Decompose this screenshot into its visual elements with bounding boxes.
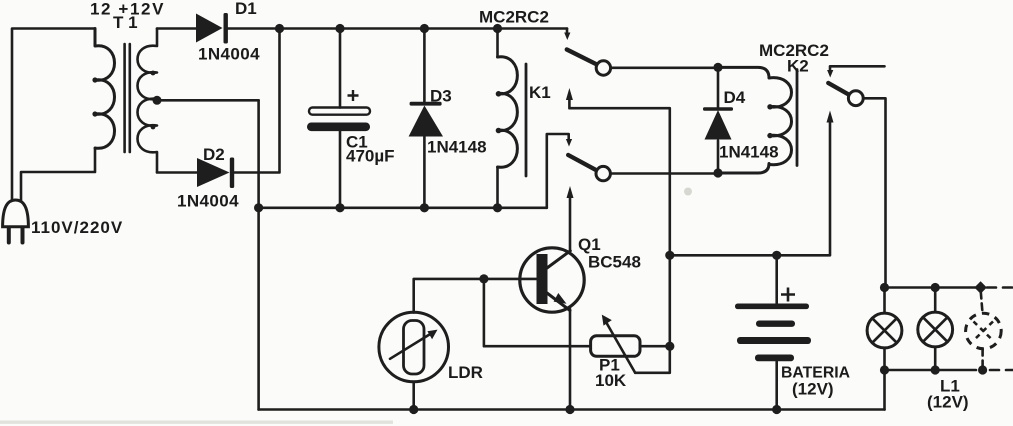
svg-text:1N4148: 1N4148 (719, 143, 779, 162)
wire lamp L1b stubs (934, 288, 937, 371)
transformer T1 primary winding (95, 29, 115, 149)
capacitor C1 bottom plate (307, 123, 370, 132)
wire P1 right terminal (640, 345, 670, 348)
svg-text:(12V): (12V) (792, 380, 834, 399)
node transformer center tap (153, 96, 162, 105)
wire 0V rail riser to K1 lower contact (547, 134, 569, 208)
node lamp2 top (931, 283, 940, 292)
node Q1 emitter on bottom rail (565, 405, 574, 414)
node lamp1 bottom (880, 365, 889, 374)
arrowhead contact pivot lower K1 (566, 139, 572, 147)
node D4/K2 bottom (713, 168, 722, 177)
wire bottom 0V rail (259, 408, 885, 411)
svg-text:110V/220V: 110V/220V (31, 218, 123, 237)
node battery positive (772, 251, 781, 260)
LDR (379, 312, 449, 382)
arrowhead pole arrow upper K1 (566, 88, 573, 100)
svg-text:Q1: Q1 (578, 235, 601, 254)
transformer T1 secondary winding (138, 29, 158, 173)
arrowhead pole arrow lower K1 (Q1 collector) (567, 186, 574, 198)
wire dashed lamp stubs (981, 292, 983, 366)
wire Q1 emitter down to rail (569, 309, 572, 410)
K2 contact point circle (848, 91, 863, 106)
relay K2 core bar (796, 70, 799, 166)
svg-text:MC2RC2: MC2RC2 (479, 8, 549, 27)
scan artifact streak bottom (0, 421, 393, 424)
wire battery negative (775, 362, 778, 410)
node Q1 base / LDR / P1 junction (479, 274, 488, 283)
diode D2 1N4004 (197, 158, 230, 187)
svg-text:1N4004: 1N4004 (198, 45, 260, 64)
wire primary bottom to plug (21, 148, 95, 201)
node D3 on 0V rail (420, 203, 429, 212)
wire K2 pole arrow down to battery rail (670, 119, 830, 255)
svg-text:T 1: T 1 (113, 13, 138, 32)
wire center-tap riser down to bottom rail (257, 100, 260, 409)
node battery on bottom rail (772, 405, 781, 414)
K2 contact blade (828, 83, 849, 95)
wire secondary top to D1 (157, 27, 196, 30)
diode D4 1N4148 (705, 110, 732, 140)
svg-text:LDR: LDR (448, 363, 483, 382)
winding joint nubs (92, 77, 97, 82)
battery plus sign (781, 288, 795, 302)
node K1 on +V rail (493, 24, 502, 33)
K1 lower contact point circle (596, 166, 610, 180)
wire D2 output up to +V rail (233, 29, 280, 173)
diode D1 1N4004 (196, 14, 223, 43)
lamp L1c dashed (optional extra lamp) (966, 313, 1002, 349)
wire lamps bottom rail dashed extension (990, 369, 1013, 372)
svg-text:10K: 10K (595, 371, 627, 390)
lamp L1a (867, 313, 902, 348)
node lamp2 bottom (931, 365, 940, 374)
wire 0V rail (259, 207, 547, 210)
wire +V top rail (227, 27, 567, 30)
wire LDR top to Q1 base (414, 279, 537, 313)
node lamp1 top (880, 283, 889, 292)
svg-text:1N4148: 1N4148 (427, 138, 487, 157)
wire D3 vertical (423, 29, 426, 208)
svg-text:1N4004: 1N4004 (177, 192, 239, 211)
relay K1 coil (498, 57, 518, 168)
wire K1 coil verticals (496, 29, 499, 208)
svg-text:(12V): (12V) (927, 393, 969, 412)
battery bar 4 (755, 355, 794, 362)
node lamp3 top diamond (974, 281, 986, 294)
K1 upper contact blade (567, 50, 598, 65)
node D4/K2 top (713, 63, 722, 72)
arrowhead pole arrow K2 (827, 111, 834, 123)
wire K1 upper contact feed from +V rail (566, 29, 569, 34)
node D2 join on +V rail (275, 24, 284, 33)
C1 plus sign (348, 90, 359, 101)
K1 upper contact point circle (596, 61, 610, 75)
wire base node down to P1 left (484, 279, 591, 346)
arrowhead contact pivot upper K1 (564, 33, 570, 41)
K1 lower contact blade (568, 155, 597, 171)
svg-text:D3: D3 (430, 87, 452, 106)
potentiometer P1 (591, 315, 640, 373)
wire lower contact output to D4/K2 bottom (610, 172, 718, 175)
node battery rail left (665, 251, 674, 260)
svg-text:BC548: BC548 (588, 253, 641, 272)
lamp L1b (918, 312, 953, 347)
wire lamps top rail (885, 286, 976, 289)
wire LDR bottom to rail (412, 382, 415, 410)
svg-text:D2: D2 (203, 145, 225, 164)
wire lamps top rail dashed extension (987, 286, 1013, 289)
svg-text:K1: K1 (529, 83, 551, 102)
wire K2 contact output down to lamps (863, 98, 885, 287)
wire lamps bottom rail (885, 369, 977, 372)
node C1 on +V rail (335, 24, 344, 33)
arrowhead contact pivot K2 (827, 70, 833, 78)
transistor Q1 BC548 (520, 248, 584, 312)
node 0V rail left corner (254, 203, 263, 212)
wire C1 vertical (339, 29, 342, 208)
relay K1 core bar (525, 64, 528, 176)
svg-text:D4: D4 (724, 88, 746, 107)
wire upper contact output to D4/K2 (611, 67, 718, 70)
AC plug (3, 200, 29, 243)
battery bar 2 (756, 321, 795, 327)
node LDR on bottom rail (409, 405, 418, 414)
battery bar 1 (735, 304, 809, 310)
wire upper pole arrow to P1 wiper node (569, 97, 669, 373)
node lamp3 bottom (978, 365, 987, 374)
battery bar 3 (737, 337, 811, 344)
svg-text:K2: K2 (787, 57, 809, 76)
node K1 on 0V rail (493, 203, 502, 212)
wire K2 contact feed horizontal (830, 66, 885, 70)
wire lamp L1a stubs (883, 288, 886, 410)
capacitor C1 top plate (309, 108, 370, 115)
node D3 on +V rail (420, 24, 429, 33)
wire secondary bottom to D2 (157, 171, 197, 174)
wire D4 vertical (717, 67, 720, 173)
svg-text:470µF: 470µF (346, 147, 395, 166)
scan artifact blob (684, 188, 692, 196)
svg-text:D1: D1 (235, 0, 257, 18)
wire battery positive (775, 255, 778, 303)
wire center tap to left riser (157, 99, 259, 102)
wire top-left from plug to transformer primary (12, 29, 95, 203)
diode D3 1N4148 (409, 106, 443, 137)
node P1 right terminal (665, 342, 674, 351)
transformer core (125, 44, 130, 152)
wire lower pole arrow to Q1 collector (569, 195, 572, 251)
relay K2 coil (718, 67, 792, 173)
node C1 on 0V rail (335, 203, 344, 212)
